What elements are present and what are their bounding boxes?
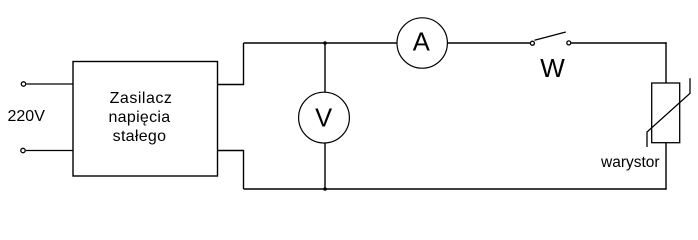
wire supply box to top rail bbox=[218, 43, 244, 85]
svg-text:220V: 220V bbox=[8, 108, 46, 125]
wire top terminal to supply box bbox=[26, 83, 73, 85]
terminal top-left bbox=[21, 82, 25, 86]
wire bottom terminal to supply box bbox=[26, 150, 73, 152]
switch W right contact bbox=[567, 41, 571, 45]
wire voltmeter branch upper bbox=[324, 43, 326, 92]
wire top rail segment 1 bbox=[244, 42, 398, 44]
wire top rail segment 3 bbox=[571, 42, 666, 44]
svg-text:W: W bbox=[540, 53, 565, 83]
svg-text:warystor: warystor bbox=[600, 154, 660, 171]
svg-text:stałego: stałego bbox=[113, 128, 167, 145]
svg-text:V: V bbox=[315, 105, 332, 133]
terminal bottom-left bbox=[21, 148, 25, 152]
ammeter A circle bbox=[397, 18, 447, 68]
svg-text:napięcia: napięcia bbox=[108, 109, 170, 126]
wire right drop to varistor bbox=[665, 42, 667, 83]
wire varistor to bottom rail bbox=[665, 143, 667, 189]
varistor diagonal stroke bbox=[647, 78, 690, 147]
wire supply box to bottom rail bbox=[218, 151, 244, 190]
power supply box bbox=[73, 62, 218, 177]
wire top rail segment 2 bbox=[447, 42, 530, 44]
varistor body rectangle bbox=[652, 83, 680, 143]
svg-text:Zasilacz: Zasilacz bbox=[110, 90, 173, 107]
junction node bottom of voltmeter branch bbox=[323, 187, 327, 191]
wire voltmeter branch lower bbox=[324, 143, 326, 189]
svg-text:A: A bbox=[413, 28, 430, 56]
switch W left contact bbox=[530, 41, 534, 45]
voltmeter V circle bbox=[299, 92, 350, 143]
junction node top of voltmeter branch bbox=[323, 41, 327, 45]
wire bottom rail bbox=[244, 188, 667, 190]
switch W lever bbox=[535, 32, 566, 40]
